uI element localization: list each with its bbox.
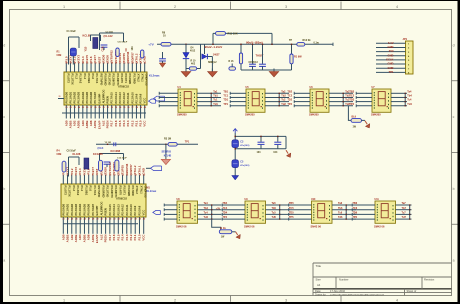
svg-text:KTL4B: KTL4B	[164, 155, 172, 158]
svg-text:SM4205: SM4205	[245, 112, 255, 116]
display U9 right joiner	[279, 205, 281, 219]
svg-text:d: d	[3, 44, 5, 48]
port arrow P0	[154, 96, 165, 101]
display U11 right wires	[396, 204, 412, 206]
svg-text:P3.0/RXD: P3.0/RXD	[103, 74, 107, 86]
display U5 segments	[252, 92, 259, 106]
svg-text:R3 1M: R3 1M	[164, 137, 171, 140]
capacitor C7	[277, 136, 279, 141]
svg-text:P1.4: P1.4	[80, 186, 84, 192]
svg-text:104: 104	[131, 46, 134, 51]
svg-text:P2.3/A11: P2.3/A11	[125, 204, 129, 216]
svg-text:90uV~1.2mV: 90uV~1.2mV	[205, 45, 223, 49]
wire Y2 loop	[100, 153, 124, 155]
wire R19 to ground	[232, 231, 236, 233]
display U4 left wires	[159, 92, 178, 94]
svg-text:VCC: VCC	[143, 98, 147, 104]
svg-text:TD3: TD3	[349, 99, 354, 102]
svg-text:104: 104	[273, 151, 278, 154]
svg-text:4: 4	[396, 298, 398, 302]
display U6 left pin names	[312, 92, 313, 93]
svg-text:Ta7: Ta7	[402, 202, 407, 205]
svg-text:90uV~(83w): 90uV~(83w)	[246, 40, 263, 44]
svg-text:GND: GND	[388, 53, 394, 57]
ground GND2	[211, 69, 213, 72]
svg-text:P3.3/INT1: P3.3/INT1	[114, 186, 118, 199]
svg-text:P1.0/T2: P1.0/T2	[63, 186, 67, 196]
svg-text:SEGR05: SEGR05	[162, 150, 172, 153]
svg-text:Size: Size	[316, 278, 322, 282]
svg-text:P1.7/C4: P1.7/C4	[93, 186, 97, 196]
svg-text:SM42 06: SM42 06	[244, 224, 255, 228]
svg-text:P1.3/A2: P1.3/A2	[79, 74, 83, 84]
svg-text:P2.6/A14: P2.6/A14	[114, 92, 118, 104]
resistor R12	[297, 43, 305, 47]
wire +7V rail	[157, 43, 333, 45]
display U6 right pin names	[326, 93, 327, 94]
capacitor C3e body	[232, 140, 239, 148]
svg-text:+7V: +7V	[148, 42, 153, 46]
connector JP1 pin 4 wire	[376, 55, 406, 57]
svg-text:TD2: TD2	[287, 99, 292, 102]
wire to SEGR05	[165, 144, 167, 159]
svg-text:P0.5/AD5: P0.5/AD5	[82, 203, 86, 215]
svg-text:KL2max: KL2max	[147, 190, 157, 193]
svg-text:Number: Number	[339, 278, 349, 282]
display U5 left wires	[230, 92, 246, 94]
svg-text:TC3: TC3	[349, 95, 354, 98]
svg-text:Revision: Revision	[424, 278, 435, 282]
svg-text:P1.2: P1.2	[75, 74, 79, 80]
svg-text:P2.0/A8: P2.0/A8	[139, 93, 143, 103]
display U7 right pin names	[388, 93, 389, 94]
svg-text:TP2: TP2	[287, 103, 292, 106]
capacitor C6	[260, 136, 262, 141]
connector JP1 pin 8 wire	[376, 71, 406, 73]
svg-text:Tc6: Tc6	[338, 212, 343, 215]
svg-text:P1.7/C4: P1.7/C4	[95, 74, 99, 84]
svg-text:Td1: Td1	[213, 103, 218, 106]
svg-text:P3.0/RXD: P3.0/RXD	[101, 186, 105, 198]
svg-text:KC1088: KC1088	[111, 149, 121, 153]
svg-text:P3.3/INT1: P3.3/INT1	[116, 74, 120, 87]
svg-text:P0.4/AD4: P0.4/AD4	[78, 203, 82, 215]
svg-text:KL188: KL188	[73, 152, 81, 156]
svg-text:Tb2: Tb2	[281, 95, 286, 98]
svg-text:3: 3	[285, 5, 287, 9]
svg-text:TP: TP	[289, 39, 292, 42]
svg-text:SM4205: SM4205	[371, 112, 381, 116]
svg-text:TP1: TP1	[389, 70, 394, 74]
wire C8 loop	[69, 156, 80, 158]
svg-text:TD4: TD4	[222, 212, 227, 215]
svg-text:BL9: BL9	[352, 115, 357, 118]
svg-text:P10: P10	[389, 49, 394, 53]
svg-text:P0.5/AD5: P0.5/AD5	[85, 91, 89, 103]
svg-text:P3.2/INT0: P3.2/INT0	[110, 186, 114, 199]
svg-text:P0.3/AD3: P0.3/AD3	[74, 203, 78, 215]
resistor R8	[161, 42, 171, 46]
display U11 left pin names	[377, 204, 378, 205]
svg-text:P0.6/AD6: P0.6/AD6	[87, 203, 91, 215]
svg-text:Drawn by:: Drawn by:	[315, 293, 327, 296]
svg-text:SM42 06: SM42 06	[374, 224, 385, 228]
ground GND5 pink	[161, 159, 170, 164]
svg-text:P0.1/AD1: P0.1/AD1	[66, 203, 70, 215]
wire analog bottom	[241, 69, 292, 71]
svg-text:R 10: R 10	[191, 61, 197, 63]
display U7 left wires	[356, 92, 372, 94]
display U7 right joiner	[404, 93, 406, 105]
svg-text:ALE/PROG: ALE/PROG	[99, 201, 103, 215]
wire filter return	[235, 148, 286, 150]
svg-text:P2.5/A13: P2.5/A13	[116, 204, 120, 216]
svg-text:c: c	[453, 115, 455, 119]
display U5 right wires	[265, 92, 289, 94]
display U6 body	[310, 89, 329, 112]
display U8 body	[177, 201, 198, 223]
svg-text:P3.6/WR: P3.6/WR	[127, 186, 131, 197]
capacitor C10 to ground	[162, 52, 164, 58]
svg-text:Tb4: Tb4	[407, 95, 412, 98]
IC U1 top pins	[65, 63, 67, 72]
svg-text:TD6: TD6	[352, 212, 357, 215]
svg-text:1: 1	[63, 5, 65, 9]
display U9 left pin names	[247, 204, 248, 205]
display U7 right wires	[391, 92, 407, 94]
svg-text:P2.6/A14: P2.6/A14	[112, 204, 116, 216]
svg-text:d: d	[453, 44, 455, 48]
svg-text:R1 9W: R1 9W	[294, 56, 302, 59]
svg-text:Sheet of: Sheet of	[407, 289, 417, 293]
wire loop D4	[200, 44, 202, 68]
svg-text:R12 0k: R12 0k	[303, 39, 312, 42]
display U7 segments	[378, 92, 385, 106]
svg-text:C1 10uF: C1 10uF	[67, 30, 77, 33]
svg-text:Td6: Td6	[338, 216, 343, 219]
node junction R3	[165, 144, 166, 145]
capacitor C1 electrolytic body	[70, 48, 76, 56]
svg-text:Ta4: Ta4	[204, 202, 209, 205]
svg-text:C2A: C2A	[102, 46, 105, 51]
display U9 body	[245, 201, 266, 223]
svg-text:EA/VPP: EA/VPP	[95, 205, 99, 215]
svg-text:SMD(L2: SMD(L2	[208, 62, 217, 64]
resistor R11	[216, 32, 226, 36]
svg-text:P0.2/AD2: P0.2/AD2	[70, 203, 74, 215]
IC U5 top pins	[62, 175, 64, 184]
svg-text:Td4: Td4	[407, 103, 412, 106]
svg-text:GND: GND	[388, 62, 394, 66]
display U10 segments	[318, 204, 325, 218]
ground near C10	[162, 61, 164, 63]
svg-text:VCC: VCC	[142, 210, 146, 216]
svg-text:P3.6/WR: P3.6/WR	[128, 74, 132, 85]
svg-text:47u(16V): 47u(16V)	[240, 164, 249, 167]
svg-text:P1.6: P1.6	[91, 74, 95, 80]
display U5 right pin names	[262, 93, 263, 94]
svg-text:Td5: Td5	[272, 216, 277, 219]
connector JP1 pin 1 wire	[376, 42, 406, 44]
svg-text:P1.6: P1.6	[89, 186, 93, 192]
svg-text:P2.1/A9: P2.1/A9	[133, 205, 137, 215]
connector JP1 pin 2 wire	[376, 46, 406, 48]
svg-text:P3.7/RD: P3.7/RD	[131, 186, 135, 196]
display U11 body	[375, 201, 396, 223]
wire BL9 to ground	[362, 119, 366, 121]
svg-text:1: 1	[63, 298, 65, 302]
svg-text:C10 33uF: C10 33uF	[118, 42, 128, 44]
svg-text:TP1: TP1	[185, 141, 190, 144]
svg-text:Y1B: Y1B	[84, 46, 87, 51]
display U10 body	[312, 201, 333, 223]
svg-text:TP6: TP6	[352, 216, 357, 219]
svg-text:4: 4	[396, 5, 398, 9]
svg-text:TC4: TC4	[222, 207, 227, 210]
svg-text:KL2max: KL2max	[149, 73, 160, 77]
svg-text:RST/VPD: RST/VPD	[97, 186, 101, 198]
connector JP1 pin 6 wire	[376, 63, 406, 65]
power ground arrow R19	[236, 232, 238, 235]
display U8 segments	[183, 204, 190, 218]
svg-text:5.1V: 5.1V	[388, 41, 394, 45]
svg-text:P2.3/A11: P2.3/A11	[126, 92, 130, 104]
svg-text:TB4: TB4	[222, 202, 227, 205]
display U9 left wires	[222, 204, 245, 206]
display U10 left pin names	[313, 204, 314, 205]
display U8 right pin names	[195, 205, 196, 206]
svg-text:P0.0/AD0: P0.0/AD0	[64, 91, 68, 103]
capacitor C5e body	[232, 160, 239, 168]
display U8 left wires	[164, 204, 177, 206]
svg-text:Date:: Date:	[315, 289, 321, 293]
IC U1 bottom bus wire	[62, 112, 146, 114]
svg-text:C15(C13: C15(C13	[249, 62, 259, 64]
svg-text:R 16: R 16	[229, 61, 235, 63]
svg-text:TD5: TD5	[289, 212, 294, 215]
svg-text:P2.2/A10: P2.2/A10	[129, 204, 133, 216]
svg-text:P3.1/TXD: P3.1/TXD	[108, 74, 112, 86]
node junction C20	[107, 144, 108, 145]
svg-text:KC1288: KC1288	[93, 152, 103, 156]
svg-text:Tb7: Tb7	[402, 207, 407, 210]
svg-text:c: c	[3, 115, 5, 119]
svg-text:GND: GND	[142, 168, 146, 174]
resistor R5	[141, 50, 144, 58]
svg-text:RST/VPD: RST/VPD	[99, 74, 103, 86]
svg-text:P3.5/T1: P3.5/T1	[123, 186, 127, 196]
display U8 left pin names	[179, 204, 180, 205]
connector JP1 body	[406, 41, 414, 74]
svg-text:SM4205: SM4205	[177, 112, 187, 116]
svg-text:TC1: TC1	[223, 95, 228, 98]
resistor R19 body	[219, 230, 232, 234]
node junction R8 out	[185, 44, 186, 45]
wire to BL9	[348, 106, 351, 121]
display U10 right wires	[332, 204, 356, 206]
svg-text:TC2: TC2	[287, 95, 292, 98]
svg-text:Td4: Td4	[204, 216, 209, 219]
svg-text:P1.2: P1.2	[72, 186, 76, 192]
svg-text:XTAL2: XTAL2	[135, 186, 139, 195]
svg-text:P2.1/A9: P2.1/A9	[134, 93, 138, 103]
svg-text:Tc2: Tc2	[281, 99, 286, 102]
svg-text:P1.4: P1.4	[83, 74, 87, 80]
svg-text:a: a	[3, 259, 5, 263]
svg-text:ALE/PROG: ALE/PROG	[101, 89, 105, 103]
svg-text:P0.7/AD7: P0.7/AD7	[91, 203, 95, 215]
svg-text:Ta2: Ta2	[281, 90, 286, 93]
svg-text:0hM: 0hM	[57, 54, 62, 57]
svg-text:Td2: Td2	[281, 103, 286, 106]
display U5 left pin names	[248, 92, 249, 93]
svg-text:TB5: TB5	[289, 202, 294, 205]
resistor R16	[240, 44, 242, 53]
svg-text:U11: U11	[375, 198, 380, 201]
svg-text:P2.5/A13: P2.5/A13	[118, 92, 122, 104]
resistor R16b body	[229, 67, 236, 70]
svg-text:Tc1: Tc1	[213, 99, 218, 102]
wire to R19	[212, 219, 221, 230]
svg-text:P2.7/A15: P2.7/A15	[110, 92, 114, 104]
wire filter vertical	[234, 133, 236, 176]
IC U1 bottom pins	[65, 105, 67, 119]
svg-text:47u(16V): 47u(16V)	[240, 144, 249, 147]
wire to power arrow	[285, 136, 287, 148]
power +7V symbol	[234, 130, 236, 134]
resistor R10 body	[189, 67, 196, 70]
svg-text:KCL88: KCL88	[83, 34, 92, 38]
svg-text:Tb6: Tb6	[338, 207, 343, 210]
wire filter top	[235, 135, 286, 137]
connector JP1 pin 3 wire	[376, 51, 406, 53]
svg-text:VCC: VCC	[142, 234, 146, 241]
svg-text:a: a	[453, 259, 455, 263]
port arrow P2	[149, 99, 156, 103]
svg-text:VCC: VCC	[143, 120, 147, 127]
svg-text:A4: A4	[317, 283, 321, 287]
svg-text:2: 2	[174, 298, 176, 302]
display U11 left wires	[352, 204, 375, 206]
svg-text:(CLA12: (CLA12	[104, 34, 114, 38]
svg-text:TC6: TC6	[352, 207, 357, 210]
capacitor C15	[252, 44, 254, 64]
IC U1 body	[64, 72, 147, 105]
svg-text:0.1w: 0.1w	[314, 42, 319, 45]
svg-text:P3.2/INT0: P3.2/INT0	[112, 74, 116, 87]
display U10 right joiner	[345, 205, 347, 219]
svg-text:31: 31	[59, 96, 61, 98]
svg-text:GND: GND	[388, 66, 394, 70]
svg-text:Tb1: Tb1	[213, 95, 218, 98]
wire D5 to ground	[207, 56, 212, 58]
power ground arrow BL9	[365, 121, 367, 124]
svg-text:0hM: 0hM	[57, 153, 62, 156]
svg-text:Ta4: Ta4	[407, 90, 412, 93]
display U8 right joiner	[211, 205, 213, 219]
svg-text:P0.3/AD3: P0.3/AD3	[77, 91, 81, 103]
display U7 body	[372, 89, 391, 112]
resistor R18	[291, 44, 293, 54]
ground GND3	[273, 70, 275, 72]
svg-text:PSEN: PSEN	[104, 208, 108, 215]
svg-text:P2.2/A10: P2.2/A10	[130, 92, 134, 104]
display U9 right wires	[266, 204, 290, 206]
display U11 right joiner	[409, 205, 411, 219]
svg-text:EA/VPP: EA/VPP	[97, 93, 101, 103]
ground GND1	[185, 69, 187, 72]
svg-text:P2.7/A15: P2.7/A15	[108, 204, 112, 216]
svg-text:P1.1/T2X: P1.1/T2X	[68, 186, 72, 197]
diode D5	[204, 44, 206, 54]
wire CLK net	[96, 143, 198, 145]
display U11 segments	[381, 204, 388, 218]
capacitor C13	[262, 44, 264, 64]
resistor R2	[116, 48, 119, 57]
svg-text:3: 3	[285, 298, 287, 302]
svg-text:Title: Title	[316, 264, 322, 268]
svg-text:Tb5: Tb5	[272, 207, 277, 210]
svg-text:4K2: 4K2	[191, 63, 196, 66]
svg-text:B 1k: B 1k	[220, 226, 226, 230]
svg-text:C3 104: C3 104	[106, 31, 114, 34]
svg-text:P2.4/A12: P2.4/A12	[122, 92, 126, 104]
connector JP1 pin 7 wire	[376, 67, 406, 69]
svg-text:P1.1/T2X: P1.1/T2X	[70, 74, 74, 85]
svg-text:SM42 06: SM42 06	[176, 224, 187, 228]
svg-text:Ta6: Ta6	[338, 202, 343, 205]
crystal Y1	[93, 38, 98, 49]
display U4 left pin names	[180, 92, 181, 93]
IC U5 bottom pins	[62, 217, 64, 234]
display U10 left wires	[289, 204, 312, 206]
svg-text:P2.4/A12: P2.4/A12	[121, 204, 125, 216]
svg-text:U10: U10	[311, 198, 316, 201]
svg-text:TD1: TD1	[223, 99, 228, 102]
svg-text:P2.0/A8: P2.0/A8	[137, 205, 141, 215]
svg-text:P1.5/B1: P1.5/B1	[84, 186, 88, 196]
svg-text:P1.0/T2: P1.0/T2	[66, 74, 70, 84]
svg-text:TP4: TP4	[222, 216, 227, 219]
display U4 body	[178, 89, 197, 112]
svg-text:GND: GND	[388, 45, 394, 49]
svg-text:Ta5: Ta5	[272, 202, 277, 205]
svg-text:TC5: TC5	[289, 207, 294, 210]
port arrow KL2	[146, 167, 151, 169]
display U6 right wires	[329, 92, 353, 94]
svg-text:XTAL1: XTAL1	[139, 186, 143, 195]
svg-text:104: 104	[257, 151, 262, 154]
display U5 body	[246, 89, 265, 112]
wire C2 loop	[100, 32, 124, 34]
connector JP1 pin 5 wire	[376, 59, 406, 61]
display U7 left pin names	[374, 92, 375, 93]
resistor BL9 body	[351, 119, 362, 123]
svg-text:D:\PROTEL99\EXAMPLES\SUBBOARD\: D:\PROTEL99\EXAMPLES\SUBBOARD\DISPLAY.SC…	[330, 293, 384, 296]
svg-text:+5V: +5V	[216, 208, 221, 211]
wire feedback down	[271, 33, 273, 44]
diode D2	[185, 44, 187, 52]
svg-text:SCLK: SCLK	[386, 58, 393, 62]
svg-text:Ta1: Ta1	[213, 90, 218, 93]
svg-text:Tc4: Tc4	[407, 99, 412, 102]
svg-text:C12 33uF: C12 33uF	[117, 158, 127, 160]
svg-text:4012: 4012	[190, 50, 196, 53]
svg-text:SM42 06: SM42 06	[311, 224, 322, 228]
capacitor C4	[101, 44, 108, 46]
resistor R23 body	[115, 160, 119, 171]
IC U5 bottom bus wire	[63, 223, 138, 225]
